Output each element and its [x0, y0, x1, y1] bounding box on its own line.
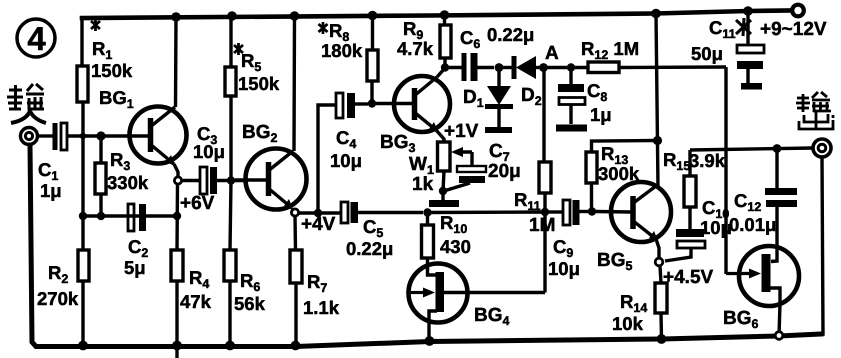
svg-text:56k: 56k	[234, 293, 266, 314]
diode D2	[503, 56, 543, 108]
svg-text:A: A	[545, 43, 559, 64]
svg-text:0.01μ: 0.01μ	[729, 214, 776, 235]
node input/R1 junction	[80, 133, 86, 139]
svg-text:1M: 1M	[529, 215, 555, 236]
node C11 rail tap	[743, 6, 753, 16]
capacitor C2	[124, 204, 148, 278]
wire BG2 emitter to R7	[293, 216, 297, 250]
node BG2 emitter ring	[291, 209, 298, 216]
node BG1 emitter ring	[174, 177, 181, 184]
svg-text:47k: 47k	[180, 291, 212, 312]
ground below C11	[741, 83, 762, 90]
svg-text:R12 1M: R12 1M	[581, 38, 639, 62]
svg-text:150k: 150k	[91, 60, 133, 81]
node BG5 emitter ring	[655, 258, 663, 266]
wire C4 branch riser	[318, 105, 335, 213]
supply terminal +9~12V	[792, 5, 804, 17]
svg-text:+9~12V: +9~12V	[760, 19, 827, 40]
resistor R9	[397, 15, 451, 67]
transistor BG3	[376, 68, 450, 142]
wire C1 to BG1 base	[67, 134, 149, 137]
wire feedback riser to BG6 gate	[724, 67, 727, 274]
input terminal	[21, 128, 38, 145]
node BG2 collector at rail	[290, 11, 300, 21]
capacitor C8	[558, 68, 612, 126]
node C4/R8 junction	[368, 99, 376, 107]
svg-text:10μ: 10μ	[700, 217, 732, 238]
svg-text:10k: 10k	[612, 313, 644, 334]
svg-text:+6V: +6V	[180, 193, 215, 214]
capacitor C9	[548, 200, 592, 279]
transistor BG6	[726, 246, 799, 336]
wire right edge from output terminal to ground rail	[819, 157, 823, 334]
node R14 ground	[657, 334, 667, 344]
output label 输出	[796, 92, 833, 129]
node BG5 collector junction	[653, 136, 662, 145]
resistor R14	[612, 266, 667, 339]
ground below C8	[556, 125, 587, 132]
transistor BG1	[130, 17, 187, 177]
capacitor C1	[38, 123, 67, 201]
wire BG2 emitter node to C5	[298, 211, 341, 214]
capacitor C7	[443, 141, 521, 191]
node W1/C7 junction	[439, 187, 447, 195]
node +4V junction	[314, 209, 322, 217]
resistor R3	[95, 136, 149, 216]
resistor R11	[514, 162, 555, 236]
wire bottom ground rail	[30, 145, 821, 347]
node C12 top	[773, 144, 782, 153]
transistor BG2	[235, 16, 307, 210]
wire BG4 drain riser to R11 node	[543, 212, 546, 293]
node BG6 ground ring	[775, 332, 783, 340]
capacitor C3	[180, 123, 246, 214]
capacitor C5	[341, 202, 423, 259]
svg-text:180k: 180k	[321, 40, 363, 61]
wire input terminal to C1	[37, 134, 53, 137]
node R5 top	[227, 11, 237, 21]
node C8 top	[567, 63, 575, 71]
transistor BG4	[409, 264, 546, 342]
svg-text:330k: 330k	[107, 172, 149, 193]
wire output line	[690, 148, 813, 150]
node C2 right	[173, 212, 181, 220]
resistor R7	[290, 250, 340, 345]
node BG5 base junction	[588, 207, 596, 215]
svg-text:50μ: 50μ	[691, 43, 723, 64]
svg-text:270k: 270k	[37, 288, 79, 309]
transistor BG5	[596, 182, 671, 258]
svg-text:+4.5V: +4.5V	[663, 267, 714, 288]
capacitor C10	[665, 197, 732, 261]
node R6 ground	[225, 341, 235, 351]
wire emitter branch down	[175, 184, 179, 250]
input label 输入	[7, 84, 46, 123]
resistor R10	[422, 212, 471, 270]
svg-text:+4V: +4V	[301, 214, 336, 235]
potentiometer W1	[409, 142, 472, 195]
resistor R2	[37, 250, 89, 346]
svg-text:0.22μ: 0.22μ	[487, 24, 534, 45]
svg-text:20μ: 20μ	[488, 161, 521, 182]
capacitor C11	[691, 11, 764, 83]
svg-text:1μ: 1μ	[40, 180, 62, 201]
wire R5 to R6	[230, 180, 231, 250]
svg-text:5μ: 5μ	[124, 257, 146, 278]
ground below D1	[485, 127, 512, 133]
diode D1	[463, 68, 513, 128]
resistor R4	[171, 250, 212, 345]
svg-text:430: 430	[440, 236, 471, 257]
svg-text:1.1k: 1.1k	[303, 297, 340, 318]
node R2 ground	[78, 341, 88, 351]
svg-text:+1V: +1V	[444, 121, 479, 142]
wire R2 branch	[81, 136, 84, 250]
svg-text:150k: 150k	[238, 73, 280, 94]
node R10 top	[423, 208, 431, 216]
svg-text:10μ: 10μ	[548, 258, 580, 279]
resistor R12	[581, 38, 726, 73]
resistor R6	[224, 250, 266, 345]
node A	[539, 63, 548, 72]
node R4 ground	[172, 341, 182, 351]
svg-text:4.7k: 4.7k	[397, 38, 434, 59]
wire node A riser to R11	[542, 68, 545, 163]
node R9 top	[440, 10, 450, 20]
capacitor C6	[445, 24, 534, 81]
svg-text:10μ: 10μ	[330, 150, 362, 171]
figure number 4	[17, 19, 55, 57]
node R3 bottom	[97, 212, 105, 220]
wire C2 run	[83, 214, 177, 217]
resistor R1	[77, 17, 133, 136]
node R7 ground	[291, 341, 301, 351]
node D1 junction	[495, 63, 504, 72]
wire top supply rail	[82, 11, 791, 19]
node supply rail tap	[651, 9, 661, 19]
node R8 top	[368, 11, 378, 21]
wire supply branch to BG5 collector	[656, 14, 658, 189]
asterisk mark near C11	[736, 18, 751, 36]
capacitor C4	[330, 93, 368, 171]
svg-text:0.22μ: 0.22μ	[346, 238, 393, 259]
svg-text:3.9k: 3.9k	[689, 150, 726, 171]
svg-text:1k: 1k	[412, 174, 434, 195]
resistor R5	[225, 16, 280, 180]
output terminal	[813, 139, 831, 157]
ground below W1	[429, 191, 459, 207]
node R11 bottom	[541, 208, 549, 216]
wire node A to C8 to R12	[543, 66, 589, 69]
capacitor C12	[729, 148, 797, 247]
svg-text:10μ: 10μ	[193, 141, 225, 162]
svg-text:4: 4	[27, 20, 46, 57]
node R3 top junction	[96, 131, 105, 140]
resistor R8	[319, 16, 379, 104]
node R9/BG3 collector	[441, 63, 449, 71]
resistor R15	[658, 141, 726, 229]
node C3 right junction	[227, 176, 235, 184]
node BG4 ground	[425, 336, 435, 346]
resistor R13	[586, 141, 654, 212]
node C2 left	[79, 212, 87, 220]
svg-text:1μ: 1μ	[590, 104, 612, 125]
wire C5 node to R11 node	[427, 210, 545, 214]
wire ground stub below rail	[175, 346, 178, 357]
node BG1 collector at rail	[171, 12, 181, 22]
